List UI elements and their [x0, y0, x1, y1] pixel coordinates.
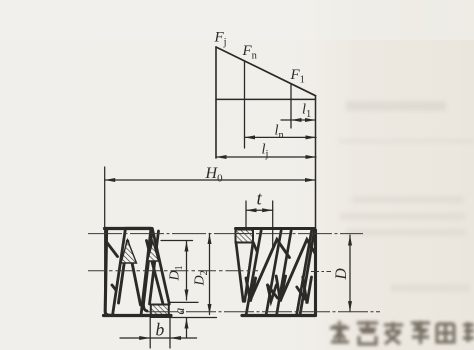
- dimension D2 line: [209, 234, 211, 315]
- D1 top extension line: [161, 240, 193, 242]
- near coil strand B outline: [113, 228, 152, 315]
- H0 left extension line: [104, 167, 106, 293]
- cut wire edge under section (left): [236, 243, 243, 302]
- load diagram: right vertical (extends down to spring): [315, 96, 317, 230]
- far coil edge from cut section: [253, 243, 263, 267]
- centerline across section square: [236, 233, 254, 235]
- strand 1 inner window lambda + far rung: [251, 240, 290, 300]
- dimension b line: [120, 337, 197, 339]
- near coil strand 1 outline: [246, 229, 282, 316]
- window wedge V under cut section: [246, 278, 256, 302]
- spring left end face: [105, 229, 110, 315]
- strand 2 inner window lambda + far rung: [281, 240, 316, 300]
- svg-text:a: a: [172, 308, 187, 315]
- spring top outer line (left): [105, 227, 152, 230]
- dimension lj line: [216, 156, 316, 158]
- foot 2 inner V: [276, 276, 285, 302]
- D1 bottom extension line: [170, 301, 198, 303]
- spring right end face: [314, 230, 317, 315]
- load diagram: left vertical axis: [215, 47, 217, 158]
- wire section square hatched: [236, 230, 254, 243]
- foot 3 inner V: [303, 277, 312, 304]
- lj arrows: [216, 155, 227, 159]
- dimension H0 line: [105, 179, 316, 181]
- faint background print rows right margin: [338, 101, 474, 292]
- svg-text:b: b: [156, 320, 165, 340]
- dimension t line: [246, 209, 273, 211]
- spring top outer line (right): [236, 227, 315, 230]
- cut wire edge under section (right): [245, 243, 253, 302]
- t left extension: [245, 201, 247, 229]
- dimension D1 line: [186, 241, 188, 300]
- far coil rung bottom (window A): [112, 285, 123, 299]
- D2 arrows: [208, 234, 212, 245]
- arrowheads: [105, 118, 352, 340]
- spring axis centerline right segment: [311, 271, 331, 273]
- gap 1 bottom wedge V: [268, 285, 277, 301]
- dimension ln line: [245, 136, 317, 138]
- dimension l1 line: [281, 119, 316, 121]
- near coil strand 2 outline: [277, 229, 313, 316]
- coil wire edge n2a with foot: [143, 229, 152, 312]
- svg-text:D: D: [333, 268, 350, 280]
- b right extension: [169, 317, 171, 348]
- extension line at Fn: [244, 61, 246, 148]
- D arrows: [348, 235, 352, 246]
- a arrow (up): [185, 318, 189, 329]
- coil wire edge n2b: [150, 231, 159, 304]
- dimension a arrow shaft: [186, 318, 188, 338]
- watermark text bottom right (blurred print from page): [330, 321, 474, 344]
- spring axis centerline left segment: [88, 270, 258, 272]
- end section hatched rect b: [151, 305, 169, 318]
- t arrows: [246, 208, 257, 212]
- gap 2 bottom far rung: [297, 287, 305, 299]
- bottom coil centerline: [148, 311, 380, 313]
- strand B inner window edges: [119, 240, 141, 305]
- load diagram: load line (slant): [216, 47, 316, 96]
- gap 1 bottom far rung: [268, 285, 278, 298]
- H0 arrows: [105, 178, 116, 182]
- a bottom extension line: [170, 317, 217, 319]
- t right extension: [272, 201, 274, 247]
- b left extension: [149, 317, 151, 348]
- spring bottom outer line (right): [242, 314, 316, 317]
- dimension D line: [349, 235, 351, 312]
- far end coil edge f3b: [147, 241, 164, 305]
- centerlines (drawn over coils): [88, 229, 380, 312]
- ln arrows: [245, 135, 256, 139]
- spring bottom outer line (left): [104, 314, 172, 317]
- hatched cut triangle H2: [148, 242, 159, 262]
- t right extension overlay: [272, 229, 274, 248]
- extension line at F1: [290, 84, 292, 128]
- svg-text:t: t: [257, 189, 263, 210]
- b arrows: [139, 336, 150, 340]
- last strand visible edge: [300, 230, 315, 315]
- top coil centerline: [88, 233, 363, 235]
- far coil rung top (window A): [107, 242, 118, 257]
- far end coil edge f3a: [152, 229, 169, 305]
- load diagram: bottom base line: [216, 98, 316, 100]
- D1 arrows: [185, 241, 189, 252]
- l1 arrows: [291, 118, 302, 122]
- hatched cut triangle H1: [121, 240, 137, 263]
